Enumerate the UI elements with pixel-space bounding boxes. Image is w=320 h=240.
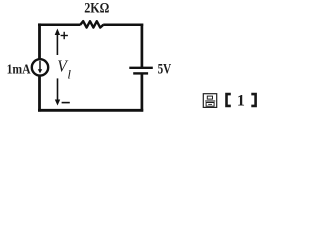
svg-text:5V: 5V bbox=[158, 61, 172, 77]
current source value label 1mA bbox=[7, 62, 32, 77]
left wire lower segment bbox=[38, 77, 41, 112]
caption character 圖 (hand-drawn) bbox=[203, 94, 216, 108]
battery V1 long positive plate bbox=[129, 67, 153, 69]
node label V_I bbox=[57, 57, 71, 82]
resistor value label 2KΩ bbox=[84, 1, 109, 17]
current source I1 circle bbox=[32, 59, 48, 75]
top wire left segment bbox=[38, 23, 81, 26]
svg-text:l: l bbox=[67, 66, 71, 81]
svg-text:2KΩ: 2KΩ bbox=[84, 1, 109, 17]
caption right lenticular bracket 】 bbox=[251, 93, 257, 108]
current source I1 arrow (downward) bbox=[38, 61, 42, 74]
voltage arrow down (- reference) bbox=[55, 78, 60, 105]
caption left lenticular bracket 【 bbox=[225, 93, 231, 108]
bottom wire bbox=[38, 109, 143, 112]
resistor R zigzag bbox=[80, 21, 103, 27]
right wire lower segment bbox=[141, 73, 144, 111]
caption figure number 1 bbox=[237, 93, 245, 110]
battery V1 short negative plate bbox=[133, 72, 148, 74]
svg-text:1: 1 bbox=[237, 93, 245, 110]
minus sign bbox=[62, 102, 70, 104]
battery value label 5V bbox=[158, 61, 172, 77]
right wire upper segment bbox=[141, 24, 144, 68]
voltage arrow up (+ reference) bbox=[55, 29, 60, 56]
top wire right segment bbox=[103, 23, 143, 26]
svg-text:1mA: 1mA bbox=[7, 62, 32, 77]
plus sign bbox=[61, 32, 68, 39]
left wire upper segment bbox=[38, 23, 41, 58]
